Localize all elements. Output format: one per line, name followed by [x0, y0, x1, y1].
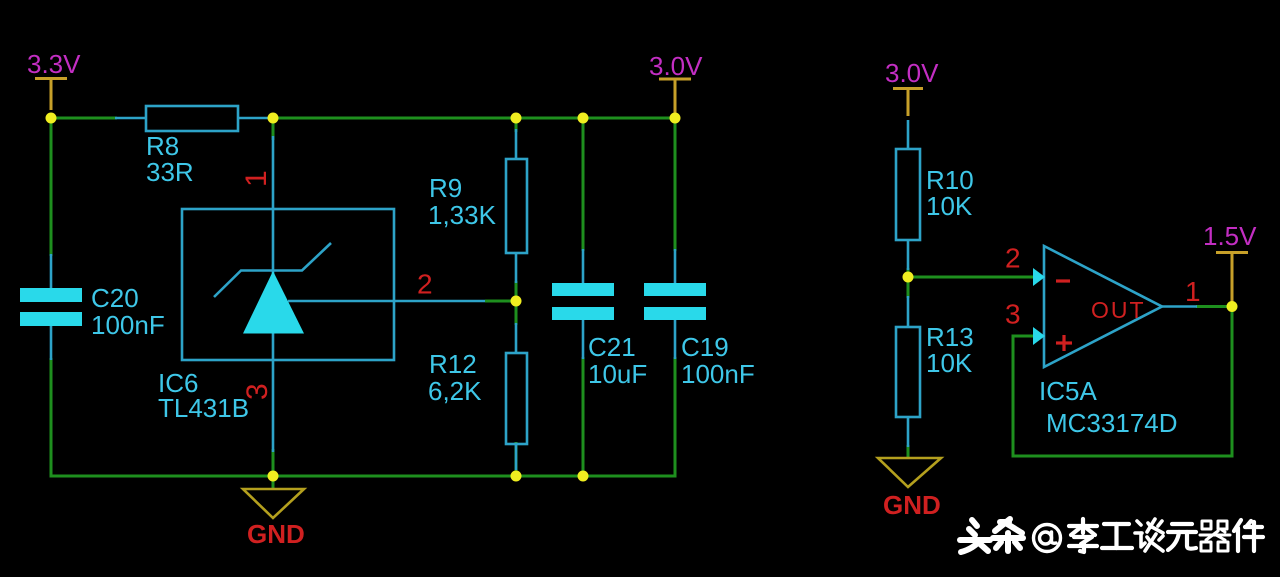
svg-text:C19: C19: [681, 332, 729, 362]
svg-text:R9: R9: [429, 173, 462, 203]
svg-text:GND: GND: [883, 490, 941, 520]
svg-text:OUT: OUT: [1091, 297, 1146, 323]
svg-text:10K: 10K: [926, 348, 973, 378]
svg-text:10K: 10K: [926, 191, 973, 221]
svg-text:C21: C21: [588, 332, 636, 362]
svg-text:1: 1: [1185, 276, 1201, 307]
svg-text:3.0V: 3.0V: [649, 51, 703, 81]
svg-text:33R: 33R: [146, 157, 194, 187]
svg-text:GND: GND: [247, 519, 305, 549]
svg-text:2: 2: [417, 269, 433, 300]
svg-text:2: 2: [1005, 243, 1021, 274]
svg-text:1,33K: 1,33K: [428, 200, 497, 230]
svg-text:C20: C20: [91, 283, 139, 313]
svg-text:MC33174D: MC33174D: [1046, 408, 1178, 438]
svg-text:10uF: 10uF: [588, 359, 647, 389]
svg-text:6,2K: 6,2K: [428, 376, 482, 406]
svg-text:100nF: 100nF: [91, 310, 165, 340]
svg-text:1: 1: [240, 170, 273, 187]
svg-text:IC5A: IC5A: [1039, 376, 1097, 406]
svg-text:100nF: 100nF: [681, 359, 755, 389]
svg-text:TL431B: TL431B: [158, 393, 249, 423]
svg-text:3: 3: [241, 383, 274, 400]
svg-text:3.0V: 3.0V: [885, 58, 939, 88]
svg-text:R12: R12: [429, 349, 477, 379]
svg-text:1.5V: 1.5V: [1203, 221, 1257, 251]
svg-text:3.3V: 3.3V: [27, 49, 81, 79]
svg-text:3: 3: [1005, 299, 1021, 330]
